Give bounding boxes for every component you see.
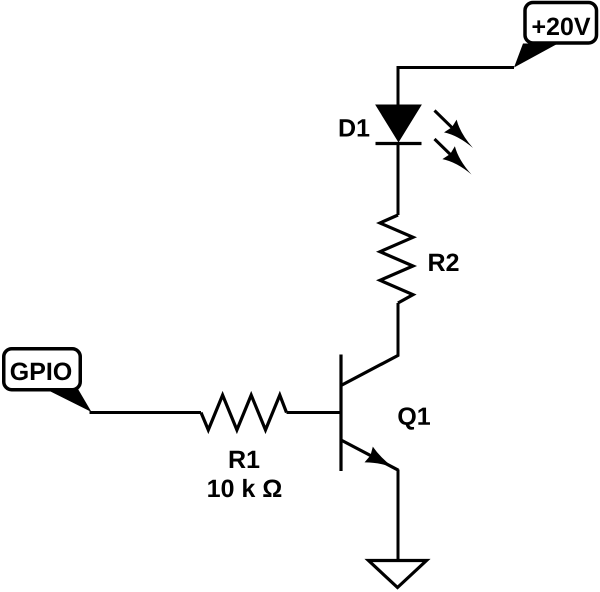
value label 10 k Ohm bbox=[208, 479, 281, 497]
label R1 bbox=[230, 451, 260, 468]
resistor R1 bbox=[201, 395, 287, 430]
resistor R2 bbox=[380, 215, 413, 303]
wire +20V flag to LED anode bbox=[398, 68, 514, 107]
wire R1 to Q1 base bbox=[287, 411, 342, 414]
wire R2 to Q1 collector bbox=[397, 303, 400, 356]
LED light arrow 1 bbox=[435, 111, 480, 155]
wire Q1 emitter to ground bbox=[397, 470, 400, 560]
label R2 bbox=[429, 254, 458, 271]
net flag GPIO bbox=[4, 349, 92, 412]
LED light arrow 2 bbox=[435, 139, 478, 181]
net flag +20V bbox=[514, 3, 597, 68]
LED D1 bbox=[376, 105, 422, 144]
label Q1 bbox=[398, 407, 430, 429]
wire GPIO flag to R1 bbox=[90, 411, 202, 414]
label D1 bbox=[340, 119, 370, 136]
ground bbox=[369, 561, 427, 588]
transistor Q1 bbox=[341, 355, 399, 476]
wire LED cathode to R2 bbox=[397, 142, 400, 215]
